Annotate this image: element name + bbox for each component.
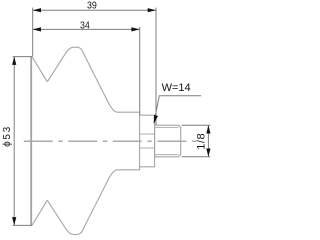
dimension 34 arrow right <box>131 27 139 31</box>
leader W=14 arrowhead <box>154 115 158 124</box>
dimension text 34 <box>80 21 90 32</box>
dimension text 1/8 <box>195 133 207 150</box>
dimension phi53 arrow bottom <box>12 217 16 225</box>
hex nut chamfer line lower <box>140 147 155 149</box>
cup bellows outline bottom half (mirror) <box>32 167 140 235</box>
dimension text 39 <box>87 0 97 11</box>
dimension 1/8 arrow top <box>206 125 210 133</box>
cup left face (lip edge) <box>30 56 32 225</box>
dimension 39 line <box>33 9 156 11</box>
dimension 39 extension line left <box>32 8 34 57</box>
label text W=14 <box>162 82 191 94</box>
dimension phi53 arrow top <box>12 57 16 65</box>
svg-text:34: 34 <box>80 21 90 32</box>
dimension 1/8 extension line top <box>182 124 211 126</box>
dimension phi53 extension line bottom <box>13 224 32 226</box>
svg-text:ϕ53: ϕ53 <box>2 125 13 147</box>
dimension 39 arrow left <box>33 8 41 12</box>
dimension 39 extension line right <box>155 8 157 125</box>
threaded stub 1/8 male <box>155 125 181 157</box>
dimension 39 arrow right <box>148 8 156 12</box>
dimension 34 arrow left <box>33 27 41 31</box>
dimension 1/8 arrow bottom <box>206 149 210 157</box>
dimension 1/8 extension line bottom <box>182 156 211 158</box>
dimension text phi53 <box>2 125 13 147</box>
centerline (axis) <box>24 140 201 142</box>
hex nut body (side view) <box>140 115 155 167</box>
svg-text:39: 39 <box>87 0 97 11</box>
dimension phi53 extension line top <box>13 56 32 58</box>
dimension 34 extension line right (to nut face) <box>139 27 141 115</box>
leader W=14 polyline <box>154 96 201 123</box>
svg-text:W=14: W=14 <box>162 82 191 94</box>
dimension 1/8 line <box>207 125 209 157</box>
dimension 34 line <box>33 28 140 30</box>
svg-text:1/8: 1/8 <box>195 133 207 150</box>
hex nut chamfer line upper <box>140 133 155 135</box>
dimension phi53 line <box>13 57 15 226</box>
cup bellows outline top half <box>32 47 140 115</box>
